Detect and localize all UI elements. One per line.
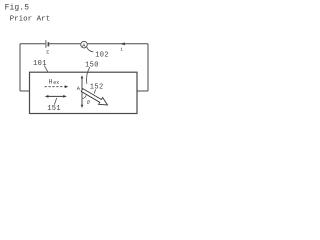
- svg-text:Fig.5: Fig.5: [5, 4, 30, 13]
- battery E short plate: [47, 42, 49, 46]
- ammeter U102 circle: [81, 41, 88, 48]
- wire left connector to element: [20, 90, 30, 92]
- svg-text:102: 102: [95, 51, 109, 59]
- leader line for label 152: [94, 89, 95, 93]
- leader line for label 150: [87, 67, 90, 84]
- current path double arrow 151: [48, 95, 65, 97]
- svg-text:151: 151: [47, 105, 61, 113]
- svg-text:Prior Art: Prior Art: [10, 16, 51, 24]
- external field dashed arrow: [45, 86, 65, 88]
- wire ammeter to right corner: [88, 43, 148, 45]
- svg-text:θ: θ: [87, 100, 90, 106]
- easy axis A double arrow vertical: [81, 78, 83, 106]
- wire battery to ammeter: [49, 43, 80, 45]
- svg-text:ex: ex: [53, 80, 59, 86]
- battery E long plate: [45, 40, 47, 48]
- svg-text:E: E: [46, 50, 49, 56]
- angle theta arc: [82, 95, 86, 98]
- leader line for label 151: [54, 98, 56, 105]
- wire left vertical: [19, 44, 21, 91]
- leader line for label 101: [44, 66, 48, 72]
- wire top-left segment: [20, 43, 45, 45]
- wire right vertical: [147, 44, 149, 91]
- svg-text:150: 150: [85, 61, 99, 69]
- wire right connector to element: [137, 90, 148, 92]
- magnetization outline arrow 152: [81, 89, 107, 105]
- MR element 101 box: [30, 72, 138, 113]
- current direction arrowhead i: [121, 43, 125, 46]
- svg-text:i: i: [120, 47, 123, 53]
- svg-text:152: 152: [90, 83, 104, 91]
- leader line for label 102: [87, 47, 94, 52]
- svg-text:H: H: [49, 79, 53, 86]
